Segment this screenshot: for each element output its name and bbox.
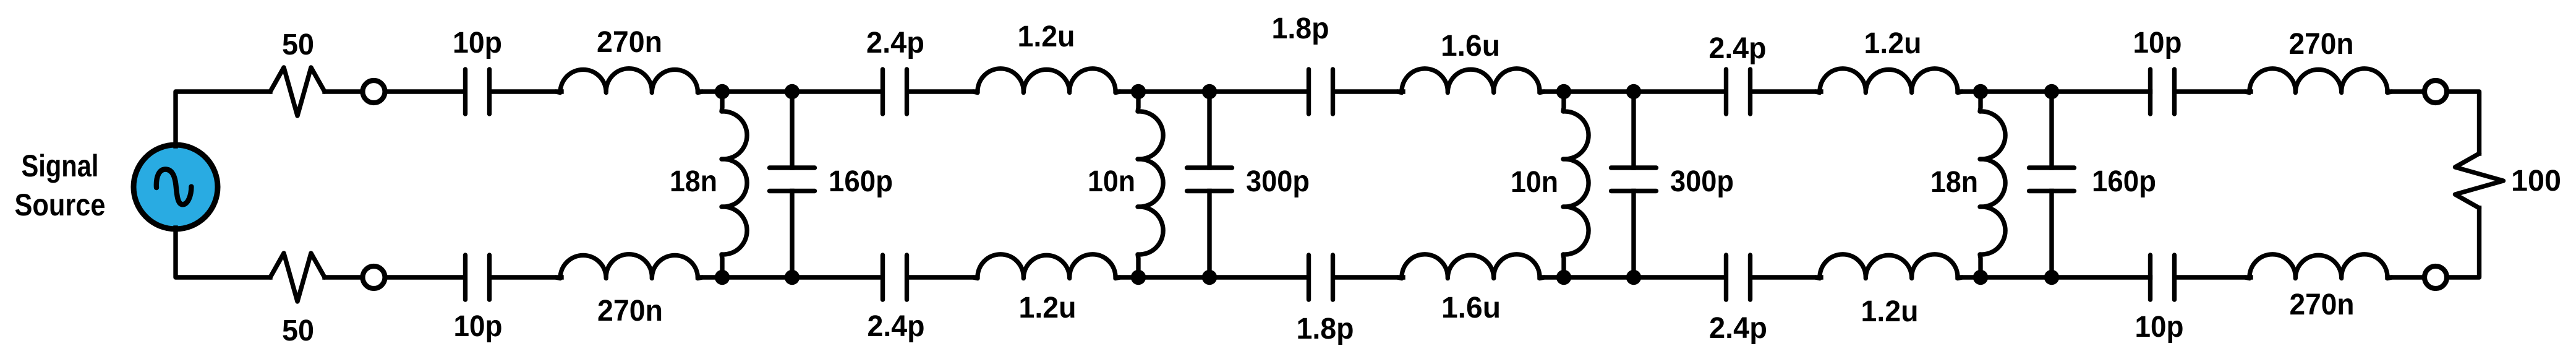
label 2.4p (top) xyxy=(866,27,924,59)
svg-text:1.2u: 1.2u xyxy=(1019,292,1077,324)
wire source top lead to top rail xyxy=(176,92,270,146)
junction node: top rail / shunt cap 300p #2 xyxy=(1202,84,1217,99)
label 50 (bottom resistor) xyxy=(282,314,314,347)
label 1.8p (top) xyxy=(1272,12,1329,45)
capacitor 10p (top left) xyxy=(466,69,490,114)
label 10p (top left cap) xyxy=(453,27,502,59)
label Signal (source name line 1) xyxy=(22,149,99,183)
wire top: inductor 1.2u to cap 1.8p xyxy=(1116,89,1307,93)
svg-text:2.4p: 2.4p xyxy=(1709,32,1767,65)
capacitor 1.8p (bottom middle) xyxy=(1309,255,1333,300)
svg-text:1.2u: 1.2u xyxy=(1861,295,1919,328)
inductor 270n (bottom left) xyxy=(556,254,702,279)
shunt inductor 10n #3 xyxy=(1563,92,1589,277)
svg-text:100: 100 xyxy=(2511,165,2561,197)
svg-text:10p: 10p xyxy=(2135,311,2184,344)
wire top: inductor 270n to terminal (right) xyxy=(2387,89,2424,93)
wire bottom: terminal to cap 10p xyxy=(386,275,463,279)
svg-text:1.6u: 1.6u xyxy=(1441,30,1500,63)
label 160p #4 xyxy=(2092,165,2156,198)
junction node: top rail / shunt coil 18n #1 xyxy=(715,84,730,99)
wire bottom: cap 10p to inductor 270n (right) xyxy=(2177,275,2251,279)
wire right: top terminal to load corner xyxy=(2448,92,2480,154)
shunt capacitor 160p #4 xyxy=(2029,92,2075,277)
inductor 270n (top left) xyxy=(556,69,702,93)
junction node: top rail / shunt cap 160p #4 xyxy=(2044,84,2059,99)
junction node: bottom rail / shunt cap 300p #3 xyxy=(1626,270,1641,285)
label 1.2u #2 (bottom) xyxy=(1861,295,1919,328)
terminal port 2- (bottom right) xyxy=(2425,266,2447,288)
wire top: cap 2.4p to inductor 1.2u xyxy=(910,89,978,93)
svg-text:1.2u: 1.2u xyxy=(1864,27,1922,60)
junction node: bottom rail / shunt coil 18n #4 xyxy=(1973,270,1988,285)
inductor 1.2u #2 (top, section 3-4) xyxy=(1815,69,1962,93)
capacitor 10p (bottom left) xyxy=(466,255,490,300)
svg-text:10p: 10p xyxy=(2133,27,2182,59)
inductor 1.2u (bottom, section 1-2) xyxy=(973,254,1120,279)
svg-text:Signal: Signal xyxy=(22,149,99,183)
label 270n (bottom left inductor) xyxy=(597,295,663,327)
wire right: load to bottom terminal xyxy=(2448,208,2480,277)
wire top: cap 1.8p to inductor 1.6u xyxy=(1336,89,1404,93)
svg-text:300p: 300p xyxy=(1670,165,1734,198)
svg-text:10p: 10p xyxy=(453,27,502,59)
terminal port 1- (bottom left) xyxy=(363,266,385,288)
shunt inductor 18n #1 xyxy=(722,92,747,277)
wire top: inductor 1.2u #2 to cap 10p #2 xyxy=(1958,89,2151,93)
capacitor 10p (bottom right) xyxy=(2151,255,2175,300)
svg-text:270n: 270n xyxy=(597,295,663,327)
inductor 270n (bottom right) xyxy=(2245,254,2392,279)
voltage source: signal source circle xyxy=(134,145,218,229)
resistor 100 (load) xyxy=(2455,154,2504,208)
label 160p #1 xyxy=(829,165,893,198)
svg-text:1.6u: 1.6u xyxy=(1441,292,1501,324)
svg-text:160p: 160p xyxy=(2092,165,2156,198)
wire bottom: inductor 1.2u to cap 1.8p xyxy=(1116,275,1307,279)
svg-text:10n: 10n xyxy=(1088,165,1135,198)
svg-text:18n: 18n xyxy=(1930,166,1978,199)
wire bottom: cap 1.8p to inductor 1.6u xyxy=(1336,275,1404,279)
wire source bottom lead to bottom rail xyxy=(176,228,270,277)
wire top: cap 10p to inductor 270n xyxy=(492,89,562,93)
shunt capacitor 160p #1 xyxy=(770,92,815,277)
svg-text:270n: 270n xyxy=(2289,28,2354,61)
inductor 1.6u (top middle) xyxy=(1397,69,1544,93)
svg-text:270n: 270n xyxy=(2290,288,2355,321)
shunt inductor 18n #4 xyxy=(1980,92,2005,277)
wire top: cap 10p to inductor 270n (right) xyxy=(2177,89,2251,93)
svg-text:2.4p: 2.4p xyxy=(868,310,925,343)
terminal port 1+ (top left) xyxy=(363,80,385,103)
svg-text:160p: 160p xyxy=(829,165,893,198)
capacitor 2.4p (bottom, section 1-2) xyxy=(883,255,907,300)
wire bottom: inductor 1.6u to cap 2.4p #2 xyxy=(1540,275,1724,279)
junction node: bottom rail / shunt coil 10n #3 xyxy=(1556,270,1571,285)
inductor 270n (top right) xyxy=(2245,69,2392,93)
label Source (source name line 2) xyxy=(15,188,106,222)
svg-text:1.2u: 1.2u xyxy=(1018,20,1075,53)
junction node: bottom rail / shunt cap 300p #2 xyxy=(1202,270,1217,285)
label 300p #3 xyxy=(1670,165,1734,198)
inductor 1.2u #2 (bottom, section 3-4) xyxy=(1815,254,1962,279)
wire top: inductor 1.6u to cap 2.4p #2 xyxy=(1540,89,1724,93)
wire top: cap 2.4p #2 to inductor 1.2u #2 xyxy=(1753,89,1822,93)
wire bottom: cap 2.4p #2 to inductor 1.2u #2 xyxy=(1753,275,1822,279)
svg-text:10n: 10n xyxy=(1511,166,1558,199)
capacitor 2.4p (top, section 1-2) xyxy=(883,69,907,114)
label 10p (bottom right cap) xyxy=(2135,311,2184,344)
label 10n #3 xyxy=(1511,166,1558,199)
svg-text:50: 50 xyxy=(282,314,314,347)
junction node: bottom rail / shunt cap 160p #1 xyxy=(785,270,800,285)
wire bottom: cap 10p to inductor 270n xyxy=(492,275,562,279)
label 18n #4 xyxy=(1930,166,1978,199)
junction node: top rail / shunt coil 10n #3 xyxy=(1556,84,1571,99)
svg-text:2.4p: 2.4p xyxy=(1709,312,1767,345)
junction node: bottom rail / shunt coil 18n #1 xyxy=(715,270,730,285)
wire top: inductor 270n to cap 2.4p xyxy=(698,89,881,93)
svg-text:2.4p: 2.4p xyxy=(866,27,924,59)
wire bottom: inductor 270n to cap 2.4p xyxy=(698,275,881,279)
label 1.2u (bottom) xyxy=(1019,292,1077,324)
wire bottom: resistor to terminal xyxy=(325,275,362,279)
label 1.2u (top) xyxy=(1018,20,1075,53)
label 300p #2 xyxy=(1246,165,1310,198)
label 270n (bottom right inductor) xyxy=(2290,288,2355,321)
junction node: top rail / shunt cap 300p #3 xyxy=(1626,84,1641,99)
wire top: resistor to terminal xyxy=(325,89,362,93)
svg-text:1.8p: 1.8p xyxy=(1272,12,1329,45)
inductor 1.6u (bottom middle) xyxy=(1397,254,1544,279)
svg-text:300p: 300p xyxy=(1246,165,1310,198)
terminal port 2+ (top right) xyxy=(2425,80,2447,103)
label 10p (top right cap) xyxy=(2133,27,2182,59)
capacitor 2.4p #2 (bottom, section 3-4) xyxy=(1726,255,1751,300)
label 10n #2 xyxy=(1088,165,1135,198)
label 2.4p #2 (top) xyxy=(1709,32,1767,65)
junction node: bottom rail / shunt cap 160p #4 xyxy=(2044,270,2059,285)
label 1.6u (bottom) xyxy=(1441,292,1501,324)
label 270n (top right inductor) xyxy=(2289,28,2354,61)
wire top: terminal to cap 10p xyxy=(386,89,463,93)
label 1.2u #2 (top) xyxy=(1864,27,1922,60)
svg-text:1.8p: 1.8p xyxy=(1297,313,1354,345)
inductor 1.2u (top, section 1-2) xyxy=(973,69,1120,93)
wire bottom: cap 2.4p to inductor 1.2u xyxy=(910,275,978,279)
label 1.6u (top) xyxy=(1441,30,1500,63)
label 18n #1 xyxy=(670,165,717,198)
svg-text:270n: 270n xyxy=(597,26,662,59)
label 10p (bottom left cap) xyxy=(454,310,503,343)
label 270n (top left inductor) xyxy=(597,26,662,59)
junction node: top rail / shunt cap 160p #1 xyxy=(785,84,800,99)
wire bottom: inductor 270n to terminal (right) xyxy=(2387,275,2424,279)
capacitor 1.8p (top middle) xyxy=(1309,69,1333,114)
shunt capacitor 300p #3 xyxy=(1611,92,1657,277)
svg-text:50: 50 xyxy=(282,28,314,61)
svg-text:Source: Source xyxy=(15,188,106,222)
label 1.8p (bottom) xyxy=(1297,313,1354,345)
junction node: top rail / shunt coil 18n #4 xyxy=(1973,84,1988,99)
label 100 (load resistor) xyxy=(2511,165,2561,197)
shunt inductor 10n #2 xyxy=(1138,92,1163,277)
wire bottom: inductor 1.2u #2 to cap 10p #2 xyxy=(1958,275,2151,279)
capacitor 2.4p #2 (top, section 3-4) xyxy=(1726,69,1751,114)
resistor 50 (bottom left) xyxy=(270,253,325,301)
svg-text:10p: 10p xyxy=(454,310,503,343)
junction node: top rail / shunt coil 10n #2 xyxy=(1131,84,1146,99)
label 50 (top resistor) xyxy=(282,28,314,61)
junction node: bottom rail / shunt coil 10n #2 xyxy=(1131,270,1146,285)
shunt capacitor 300p #2 xyxy=(1187,92,1232,277)
label 2.4p (bottom) xyxy=(868,310,925,343)
voltage source sine symbol xyxy=(156,170,192,205)
resistor 50 (top left) xyxy=(270,67,325,116)
capacitor 10p (top right) xyxy=(2151,69,2175,114)
label 2.4p #2 (bottom) xyxy=(1709,312,1767,345)
svg-text:18n: 18n xyxy=(670,165,717,198)
